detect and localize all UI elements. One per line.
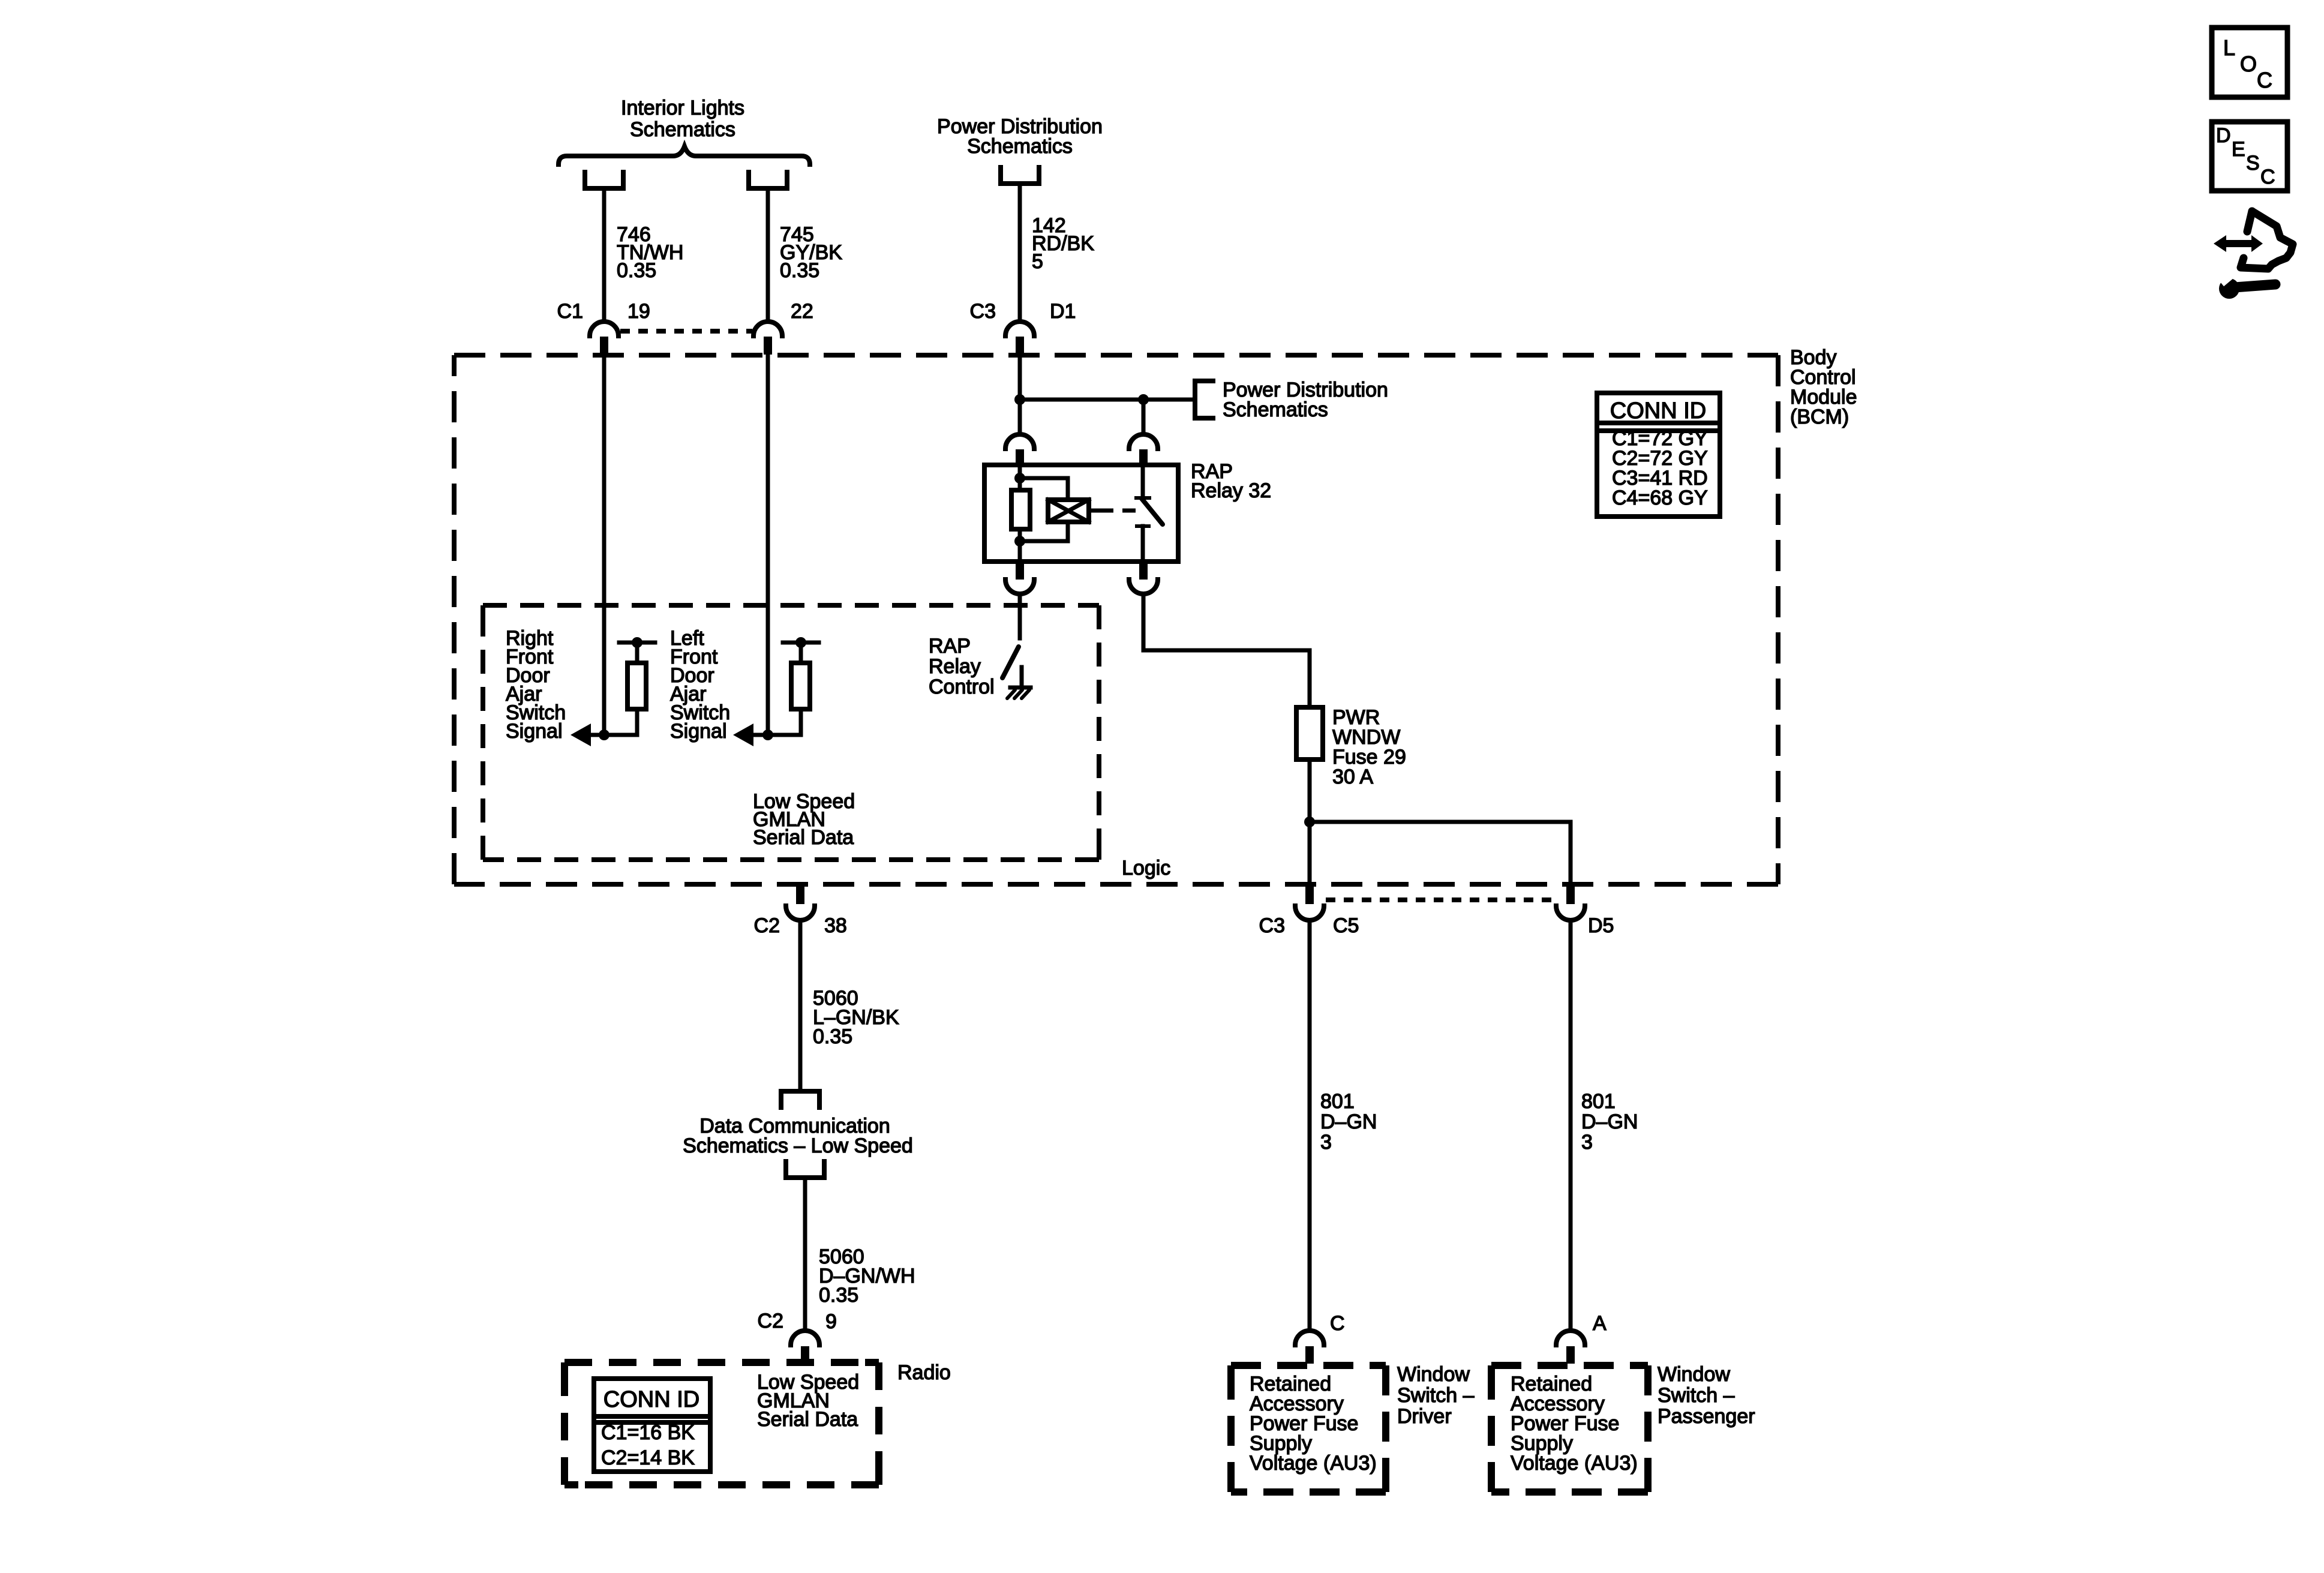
svg-text:C: C — [2260, 166, 2275, 188]
svg-text:19: 19 — [627, 300, 650, 323]
svg-text:D1: D1 — [1050, 300, 1076, 323]
svg-text:Voltage (AU3): Voltage (AU3) — [1250, 1452, 1377, 1475]
svg-text:Interior Lights: Interior Lights — [621, 97, 744, 119]
svg-text:Schematics: Schematics — [967, 135, 1073, 158]
svg-text:Relay: Relay — [929, 655, 981, 678]
svg-text:C1=16 BK: C1=16 BK — [601, 1421, 695, 1444]
svg-text:30 A: 30 A — [1332, 766, 1373, 788]
svg-text:0.35: 0.35 — [813, 1025, 852, 1048]
svg-text:O: O — [2240, 52, 2257, 76]
svg-text:Signal: Signal — [506, 720, 563, 743]
svg-text:Control: Control — [929, 676, 995, 698]
svg-text:0.35: 0.35 — [780, 259, 819, 282]
svg-text:Switch –: Switch – — [1397, 1384, 1475, 1407]
svg-text:Switch –: Switch – — [1658, 1384, 1735, 1407]
svg-text:3: 3 — [1581, 1131, 1593, 1154]
svg-text:Passenger: Passenger — [1658, 1405, 1755, 1428]
svg-text:Logic: Logic — [1122, 857, 1170, 879]
svg-text:C5: C5 — [1333, 914, 1359, 937]
svg-text:C2: C2 — [758, 1310, 783, 1332]
svg-text:Voltage (AU3): Voltage (AU3) — [1511, 1452, 1638, 1475]
svg-text:D: D — [2216, 124, 2231, 147]
svg-text:C4=68 GY: C4=68 GY — [1612, 487, 1708, 509]
svg-text:C3: C3 — [970, 300, 996, 323]
svg-text:22: 22 — [791, 300, 813, 323]
svg-text:CONN ID: CONN ID — [1610, 398, 1706, 424]
svg-text:D–GN: D–GN — [1581, 1110, 1638, 1133]
svg-text:Driver: Driver — [1397, 1405, 1452, 1428]
svg-text:3: 3 — [1320, 1131, 1332, 1154]
svg-text:38: 38 — [824, 914, 847, 937]
svg-text:C3: C3 — [1259, 914, 1285, 937]
svg-text:Serial Data: Serial Data — [757, 1408, 858, 1431]
svg-text:L: L — [2223, 35, 2235, 60]
svg-text:Schematics: Schematics — [630, 118, 735, 141]
svg-text:801: 801 — [1320, 1090, 1355, 1113]
svg-text:9: 9 — [825, 1310, 837, 1333]
svg-text:C1: C1 — [557, 300, 583, 323]
svg-text:Window: Window — [1397, 1363, 1470, 1386]
svg-text:Schematics – Low Speed: Schematics – Low Speed — [683, 1134, 913, 1157]
svg-text:Radio: Radio — [897, 1361, 951, 1384]
svg-text:801: 801 — [1581, 1090, 1616, 1113]
svg-text:E: E — [2232, 138, 2245, 161]
svg-text:D–GN: D–GN — [1320, 1110, 1377, 1133]
svg-text:5: 5 — [1032, 250, 1043, 273]
svg-text:C2=14 BK: C2=14 BK — [601, 1446, 695, 1469]
svg-text:0.35: 0.35 — [819, 1284, 858, 1307]
svg-text:Serial Data: Serial Data — [753, 826, 854, 849]
svg-text:S: S — [2246, 152, 2260, 175]
svg-text:C2: C2 — [754, 914, 780, 937]
svg-text:CONN ID: CONN ID — [603, 1387, 699, 1412]
svg-text:D5: D5 — [1588, 914, 1614, 937]
svg-text:Relay 32: Relay 32 — [1191, 479, 1271, 502]
svg-text:A: A — [1593, 1312, 1607, 1335]
svg-text:Schematics: Schematics — [1223, 398, 1328, 421]
svg-text:(BCM): (BCM) — [1790, 406, 1849, 428]
svg-text:Signal: Signal — [670, 720, 727, 743]
svg-text:0.35: 0.35 — [617, 259, 656, 282]
svg-text:C: C — [1330, 1312, 1345, 1335]
svg-text:RAP: RAP — [929, 635, 971, 658]
svg-text:C: C — [2257, 68, 2272, 92]
svg-text:Window: Window — [1658, 1363, 1730, 1386]
